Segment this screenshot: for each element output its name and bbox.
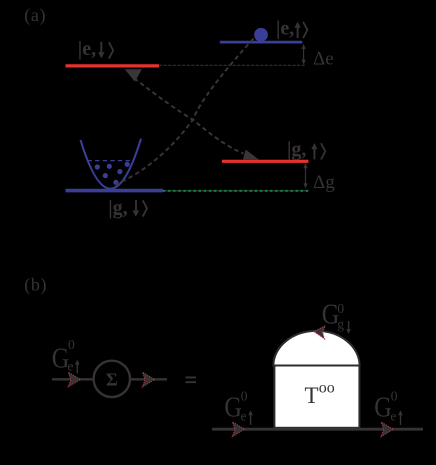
svg-text:e: e — [68, 358, 74, 373]
svg-text:0: 0 — [241, 388, 248, 403]
dashed transition curve: dot to Fermi sea — [114, 39, 254, 186]
Delta-g double arrow — [303, 163, 307, 189]
svg-text:|e,: |e, — [78, 38, 96, 60]
ket label |g,down> — [108, 197, 147, 219]
svg-text:|g,: |g, — [287, 139, 306, 161]
Fermi sea atoms (dots) — [95, 162, 130, 185]
propagator line out of Sigma — [130, 378, 168, 380]
svg-text:T: T — [305, 383, 319, 408]
arrowhead on left propagator — [68, 372, 80, 387]
propagator line into Sigma — [52, 378, 95, 380]
svg-text:0: 0 — [337, 301, 344, 316]
equals sign — [185, 377, 196, 384]
level line |e,down> (red) — [66, 64, 160, 67]
ket label |e,up> — [276, 17, 307, 39]
svg-text:|g,: |g, — [108, 197, 127, 219]
G0_e-up label (left of Sigma) — [52, 337, 80, 375]
svg-text:g: g — [337, 317, 344, 332]
G0_g-down label above dome — [322, 299, 351, 335]
svg-text:0: 0 — [68, 337, 75, 352]
ket label |e,down> — [78, 38, 113, 60]
svg-text:(a): (a) — [24, 5, 46, 26]
svg-text:Δg: Δg — [313, 172, 335, 193]
svg-text:e: e — [390, 408, 396, 423]
arrowhead into |g,up> — [243, 150, 259, 160]
impurity atom dot on |e,up> — [254, 28, 268, 42]
hole propagator dome (white) — [273, 331, 359, 366]
G0_e-up label (right of box) — [374, 388, 403, 425]
svg-text:0: 0 — [391, 388, 398, 403]
Fermi level dashed line inside trap — [88, 160, 134, 162]
level line |g,up> (red) — [222, 160, 309, 163]
ket label |g,up> — [287, 139, 325, 161]
T-matrix box (white) — [274, 366, 359, 428]
Sigma self-energy circle — [94, 361, 130, 397]
dashed gray extension of |e,down> level — [159, 64, 306, 66]
svg-text:Σ: Σ — [106, 370, 118, 390]
G0_e-up label (left of box) — [224, 388, 253, 425]
harmonic trap parabola (blue) — [81, 139, 142, 189]
arrowhead into |e,down> — [125, 69, 142, 82]
arrowhead on right propagator — [143, 372, 155, 387]
svg-text:G: G — [374, 392, 392, 424]
dashed green extension of |g,down> level — [163, 190, 309, 192]
svg-text:(b): (b) — [24, 275, 47, 296]
arrowhead on dome — [313, 325, 325, 339]
svg-text:G: G — [224, 392, 242, 424]
left arrowhead on long line — [232, 422, 244, 437]
svg-text:oo: oo — [319, 379, 335, 396]
svg-text:|e,: |e, — [276, 17, 294, 39]
right arrowhead on long line — [381, 422, 393, 437]
Delta-e double arrow — [302, 44, 306, 65]
long fermion line under T box — [212, 428, 423, 431]
dashed transition curve: |e,down> to |g,up> (double arrow) — [134, 78, 244, 154]
level line |g,down> (blue) — [66, 189, 164, 193]
level line |e,up> (blue) — [220, 41, 302, 44]
svg-text:e: e — [241, 408, 247, 423]
T^oo label — [305, 379, 335, 408]
svg-text:Δe: Δe — [313, 49, 334, 70]
